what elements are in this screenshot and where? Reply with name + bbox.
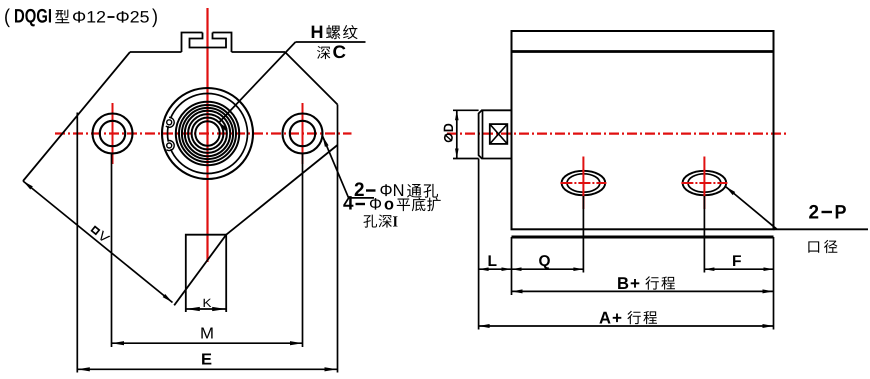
flange screw hole upper mask (165, 118, 173, 126)
phiV arrowhead lower (163, 294, 173, 303)
label A+stroke (599, 312, 610, 324)
extension body left (511, 237, 513, 295)
label hole depth I (363, 215, 377, 228)
flange screw lobe lower (166, 141, 174, 151)
label E (202, 353, 211, 364)
bore ring r31.7 (176, 102, 239, 165)
port left inner (567, 174, 600, 192)
dimension F arrows (704, 267, 714, 271)
port right centerline horizontal (681, 182, 727, 184)
label 2-P (809, 205, 818, 219)
body base thick line (512, 236, 774, 239)
leader 2-phiN arrowhead (323, 136, 329, 147)
leader 2-phiN (323, 136, 349, 198)
right side edge / E extension (337, 105, 339, 373)
rod tang rectangle (186, 235, 226, 312)
port right centerline vertical (703, 157, 705, 210)
bore ring r15.9 (192, 118, 224, 150)
flange screw hole lower (167, 143, 172, 148)
label F (733, 255, 741, 266)
bore ring r25.6 (182, 108, 233, 159)
dimension E line (77, 368, 337, 370)
centerline horizontal (front view) (55, 132, 352, 134)
dimension line phiV (23, 181, 173, 303)
flange screw hole lower mask (165, 142, 173, 150)
leader H thread (219, 42, 296, 123)
dimension Q line (512, 268, 584, 270)
extension body right (773, 237, 775, 330)
centerline horizontal (side view) (447, 133, 787, 135)
rod end cross (490, 124, 508, 144)
dimension B+stroke line (512, 290, 774, 292)
leader H thread arrowhead (219, 123, 228, 131)
leader 2-P underline (774, 228, 869, 230)
phiD extension bottom (453, 158, 479, 160)
right chamfer edge (285, 52, 338, 105)
bolt hole left counterbore (93, 114, 133, 154)
dimension L arrows (479, 267, 489, 271)
bolt hole left through (100, 121, 125, 146)
dimension F line (704, 268, 773, 270)
rod boss outline (479, 110, 512, 158)
bore ring r28.5 (179, 105, 236, 162)
phiD extension top (453, 109, 479, 111)
leader 2-P arrowhead (726, 187, 736, 196)
port right inner (688, 174, 721, 192)
port boss left outer (562, 171, 606, 195)
label L (489, 255, 497, 266)
dimension A+stroke line (479, 325, 774, 327)
body top edge (130, 51, 285, 53)
flange screw hole upper (167, 120, 172, 125)
dimension L line (479, 268, 512, 270)
port left centerline horizontal (560, 182, 606, 184)
label phiV (91, 225, 111, 243)
dimension A arrows (479, 324, 490, 328)
dimension E arrows (77, 367, 90, 371)
label depth C (317, 46, 330, 59)
label phiD (444, 124, 453, 142)
label K (204, 299, 212, 307)
label 4-phiO counterbore (343, 196, 353, 209)
label Q (539, 255, 550, 269)
lower-right edge to bottom vertex (174, 235, 226, 306)
leader 2-phiN underline (349, 197, 374, 199)
sensor slot tab outer (182, 33, 232, 53)
bore ring r19.4 (188, 114, 227, 153)
bolt hole right counterbore (283, 114, 323, 154)
dimension B arrows (512, 289, 523, 293)
leader H thread underline (296, 41, 366, 43)
M extension right (302, 154, 304, 347)
title (5, 9, 10, 28)
phiV arrowhead upper (23, 181, 33, 190)
dimension M line (112, 342, 303, 344)
dimension K line (186, 308, 226, 310)
leader 2-P (726, 187, 778, 230)
centerline vertical (front view) (206, 8, 208, 262)
label B+stroke (618, 277, 628, 289)
M extension left (111, 154, 113, 347)
dimension Q arrows (512, 267, 522, 271)
left chamfer edge (23, 52, 130, 181)
boss flange circle (168, 94, 248, 174)
cylinder body outline (512, 31, 774, 229)
body head cap line (512, 50, 774, 53)
phiD dimension line (456, 110, 458, 158)
port left centerline vertical (582, 157, 584, 210)
phiD arrows (455, 110, 459, 120)
dimension K arrows (186, 307, 200, 311)
label port size (808, 241, 819, 252)
centerline right bolt hole (302, 103, 304, 164)
bore ring r22.7 (185, 111, 230, 156)
flange screw lobe upper (166, 117, 174, 127)
bolt hole right through (290, 121, 315, 146)
boss outer circle (162, 88, 253, 179)
left side edge / E extension (76, 113, 78, 373)
label H thread (312, 26, 323, 38)
port boss right outer (683, 171, 727, 195)
extension port left (582, 196, 584, 273)
bore ring r12.2 (195, 121, 219, 145)
rod end square (490, 124, 508, 144)
dimension M arrows (112, 341, 125, 345)
label M (201, 327, 212, 338)
extension nose left (478, 159, 480, 330)
lower-right edge upper (226, 145, 337, 235)
centerline left bolt hole (112, 103, 114, 164)
rod boss chamfer line (482, 110, 484, 158)
extension port right (703, 196, 705, 273)
label 2-phiN through hole (355, 182, 364, 196)
sensor slot tab inner (190, 33, 227, 48)
